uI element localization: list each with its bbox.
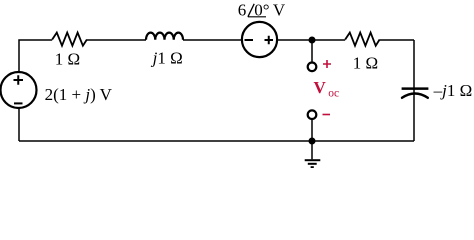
wire right vertical through C1 (413, 40, 415, 141)
ground (305, 160, 321, 167)
minus sign red (323, 114, 331, 116)
wire V1 bottom to bottom rail (18, 108, 20, 141)
inductor L1 j1ohm (146, 33, 183, 40)
svg-text:2(1 + j) V: 2(1 + j) V (45, 85, 113, 104)
resistor R1 1ohm left (52, 33, 87, 46)
svg-text:V: V (273, 0, 286, 19)
svg-text:oc: oc (328, 88, 339, 100)
voltage source V1 2(1+j) (1, 72, 37, 108)
wire V2 right to node A and R2 left (278, 39, 346, 41)
wire L1 right to V2 left (183, 39, 242, 41)
svg-text:0°: 0° (254, 0, 269, 19)
svg-text:V: V (314, 78, 327, 97)
svg-text:1 Ω: 1 Ω (55, 49, 80, 68)
svg-text:6: 6 (238, 0, 247, 19)
resistor R2 1ohm right (345, 33, 379, 46)
voltage source V2 6 angle 0 (242, 22, 277, 57)
label 6 angle 0 V (238, 0, 286, 19)
wire bottom rail (19, 140, 414, 142)
wire R1 right to L1 left (87, 39, 146, 41)
capacitor C1 -j1ohm (402, 89, 429, 98)
node B junction bottom (309, 138, 316, 145)
wire node A down to upper terminal (311, 40, 313, 62)
svg-text:1 Ω: 1 Ω (353, 54, 378, 73)
node A junction top (309, 37, 316, 44)
wire lower terminal down to node B (311, 119, 313, 141)
svg-text:–j1 Ω: –j1 Ω (433, 81, 473, 100)
plus sign red (323, 60, 331, 68)
svg-text:j1 Ω: j1 Ω (151, 49, 183, 68)
terminal lower open circle (308, 110, 317, 119)
wire R2 right to top-right corner (380, 39, 414, 41)
wire ground stem (311, 141, 313, 159)
terminal upper open circle (308, 63, 317, 72)
wire from V1 top to R1 left (19, 40, 52, 72)
